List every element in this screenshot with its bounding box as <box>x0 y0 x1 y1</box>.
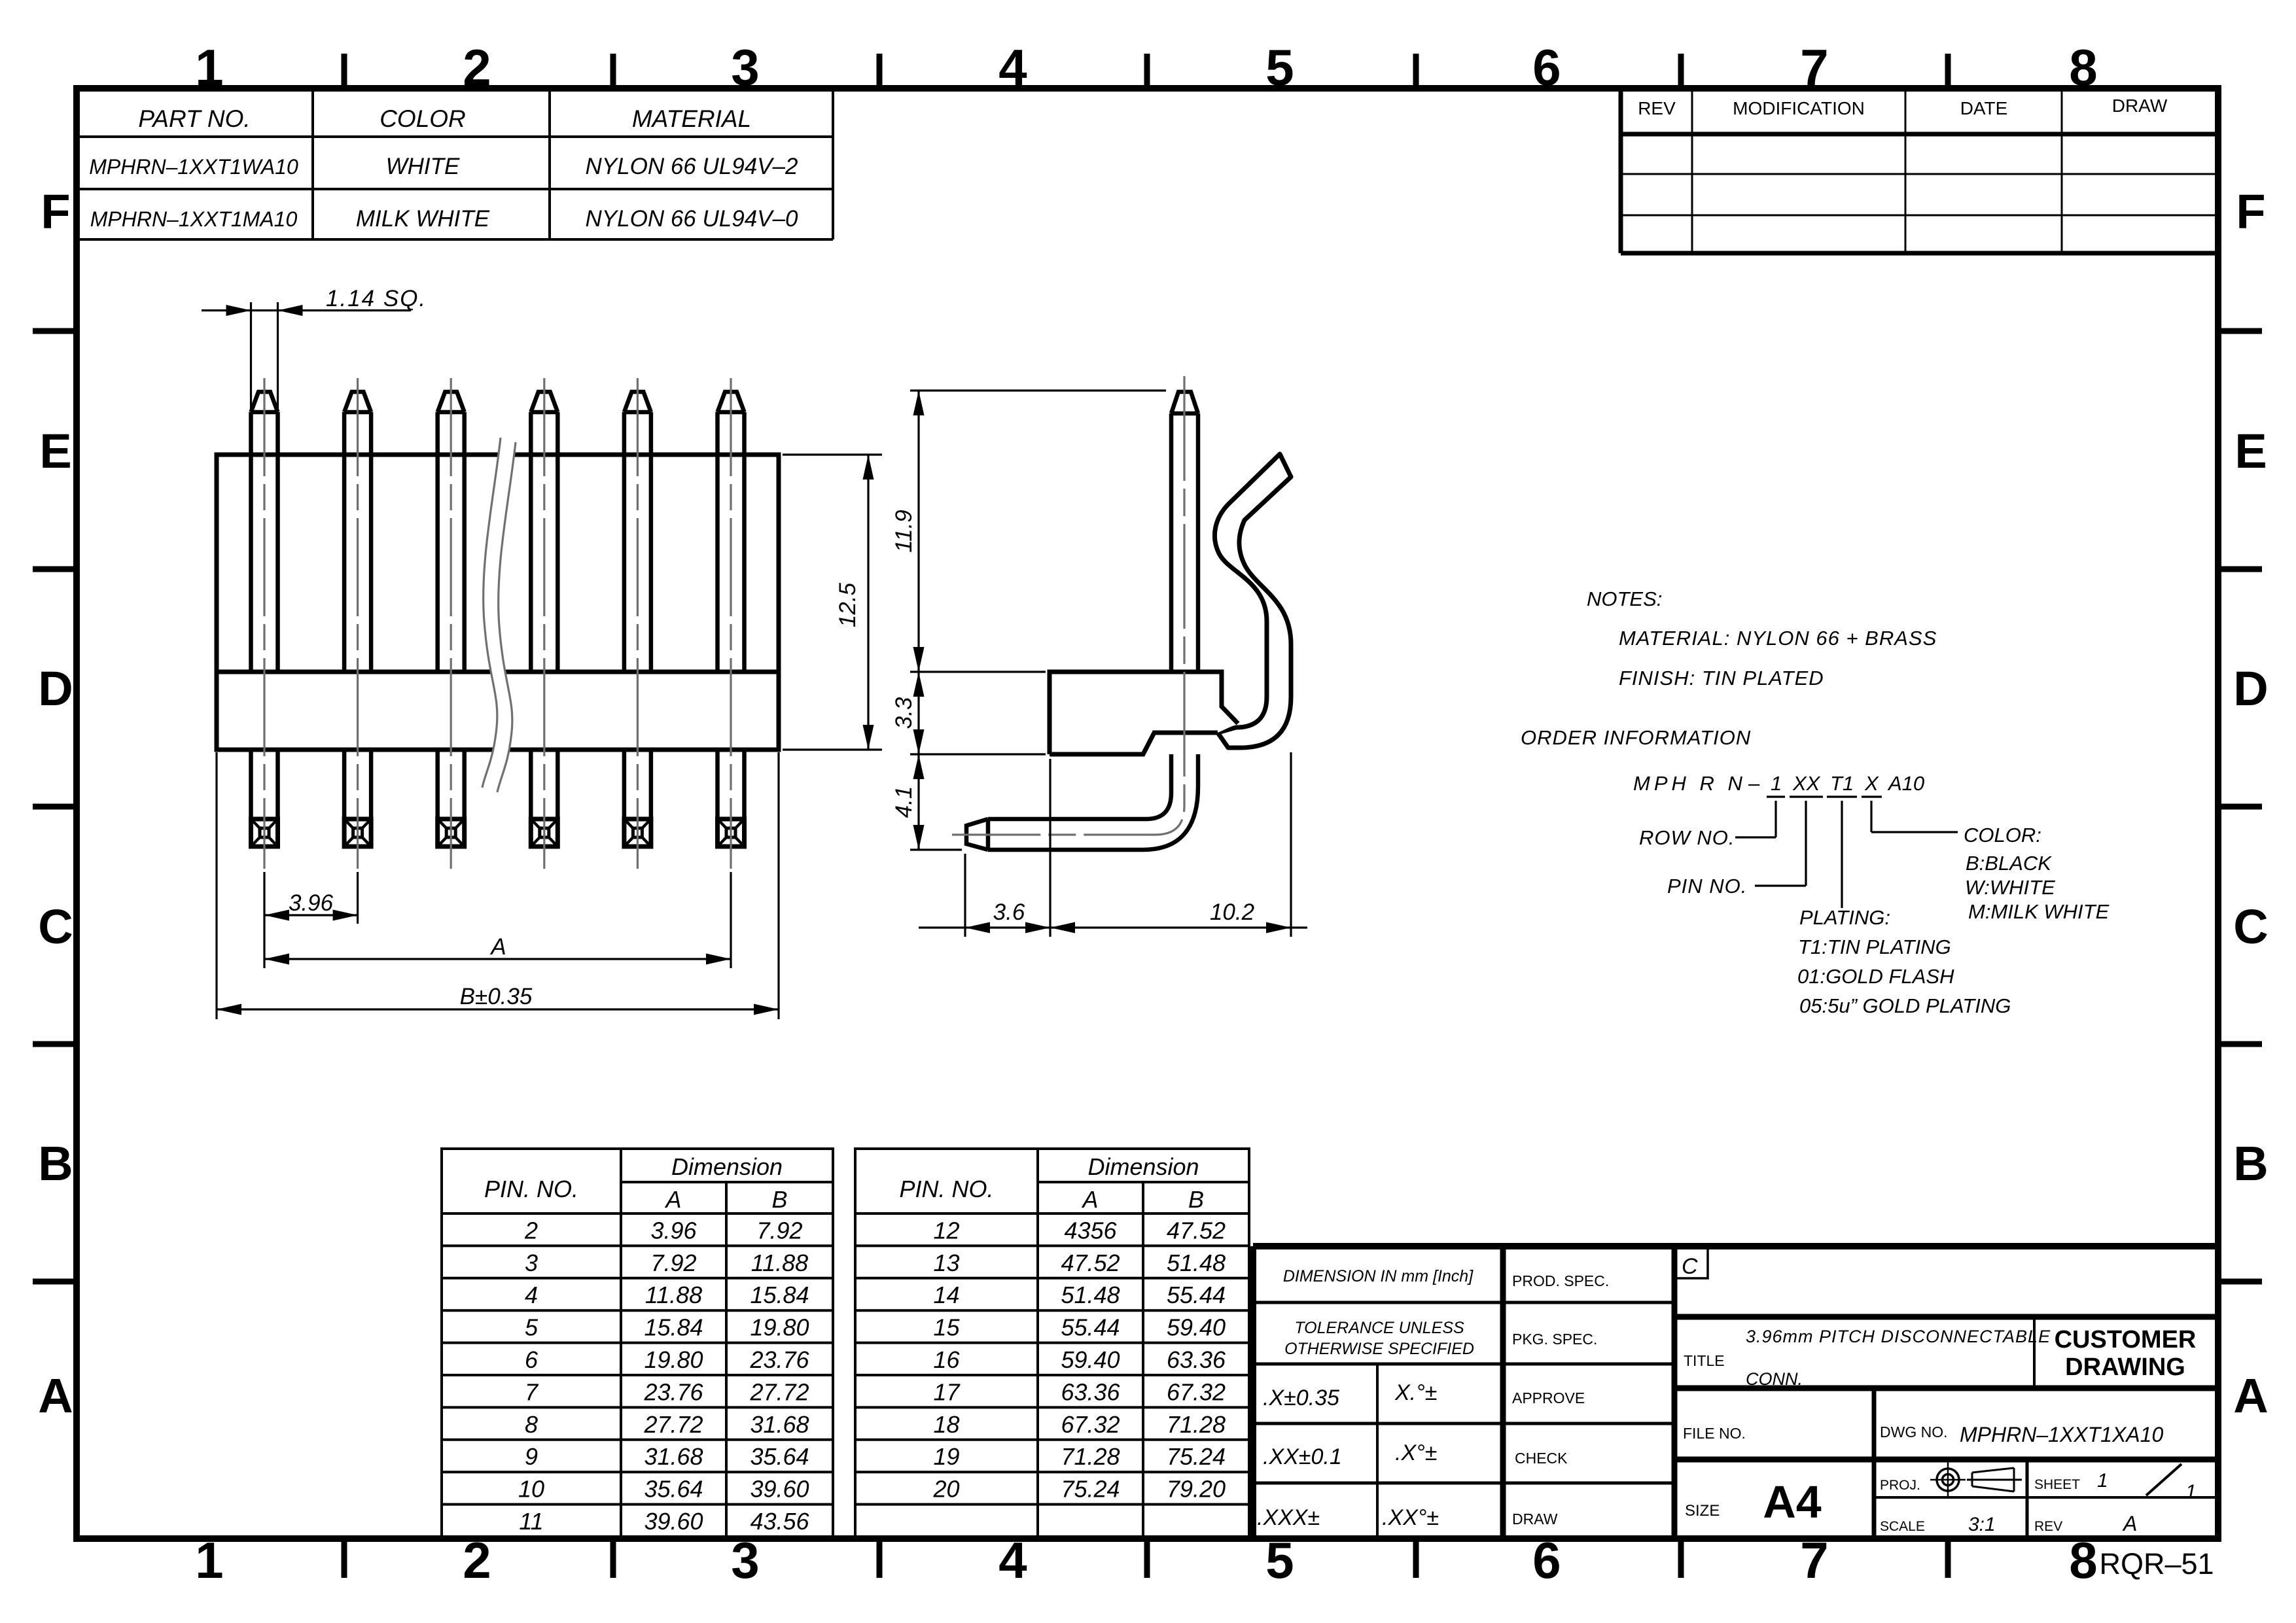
svg-text:.X°±: .X°± <box>1395 1440 1437 1465</box>
svg-text:4.1: 4.1 <box>891 786 917 818</box>
svg-text:XX: XX <box>1792 772 1821 795</box>
svg-text:35.64: 35.64 <box>644 1476 703 1503</box>
dimension A <box>263 924 265 968</box>
svg-text:1: 1 <box>195 1531 223 1589</box>
svg-text:.XX°±: .XX°± <box>1382 1505 1439 1530</box>
svg-text:47.52: 47.52 <box>1167 1217 1226 1244</box>
svg-text:19: 19 <box>933 1443 959 1470</box>
svg-text:COLOR: COLOR <box>380 105 466 132</box>
svg-text:7.92: 7.92 <box>756 1217 802 1244</box>
svg-text:47.52: 47.52 <box>1061 1249 1120 1276</box>
svg-text:5: 5 <box>525 1314 539 1341</box>
svg-text:8: 8 <box>2069 39 2097 96</box>
svg-text:12: 12 <box>933 1217 959 1244</box>
svg-text:05:5u” GOLD PLATING: 05:5u” GOLD PLATING <box>1799 994 2011 1017</box>
svg-text:NYLON 66 UL94V–0: NYLON 66 UL94V–0 <box>586 206 798 232</box>
svg-text:67.32: 67.32 <box>1167 1378 1226 1405</box>
title cell <box>1674 1314 2218 1320</box>
svg-text:E: E <box>2234 424 2267 478</box>
svg-text:MATERIAL: MATERIAL <box>632 105 751 132</box>
dimension 4.1 <box>910 848 962 850</box>
svg-text:71.28: 71.28 <box>1061 1443 1120 1470</box>
file/dwg row <box>1674 1457 2218 1463</box>
svg-text:79.20: 79.20 <box>1167 1476 1226 1503</box>
svg-text:A: A <box>2233 1369 2268 1423</box>
svg-text:SCALE: SCALE <box>1880 1519 1925 1534</box>
svg-text:4: 4 <box>998 39 1027 96</box>
zone ticks bottom <box>342 1539 347 1578</box>
pin 5 centerline <box>637 378 639 869</box>
svg-text:7: 7 <box>1800 39 1828 96</box>
leader pin no. <box>1805 801 1807 886</box>
connector body (front view) <box>217 455 779 750</box>
svg-text:.XXX±: .XXX± <box>1257 1505 1320 1530</box>
svg-text:X.°±: X.°± <box>1394 1380 1437 1405</box>
part table grid <box>311 88 314 239</box>
svg-text:DWG NO.: DWG NO. <box>1880 1423 1948 1440</box>
svg-text:12.5: 12.5 <box>835 582 860 627</box>
pin 3 (front view) <box>438 392 465 846</box>
svg-text:PIN NO.: PIN NO. <box>1667 875 1747 898</box>
svg-text:COLOR:: COLOR: <box>1964 824 2041 846</box>
svg-text:4356: 4356 <box>1064 1217 1117 1244</box>
svg-text:23.76: 23.76 <box>643 1378 703 1405</box>
svg-text:.XX±0.1: .XX±0.1 <box>1263 1444 1342 1469</box>
svg-text:18: 18 <box>933 1411 959 1438</box>
svg-text:8: 8 <box>525 1411 538 1438</box>
svg-text:17: 17 <box>933 1378 961 1405</box>
svg-text:FINISH: TIN PLATED: FINISH: TIN PLATED <box>1619 667 1824 689</box>
leader color <box>1870 801 1872 832</box>
svg-text:7.92: 7.92 <box>650 1249 696 1276</box>
svg-text:CUSTOMER: CUSTOMER <box>2055 1326 2197 1353</box>
svg-text:1: 1 <box>1771 772 1782 795</box>
svg-text:D: D <box>38 661 73 716</box>
pin bottom tip (side view) <box>966 819 988 850</box>
sheet slash <box>2146 1464 2181 1495</box>
revision table grid <box>1619 88 1623 253</box>
svg-text:PLATING:: PLATING: <box>1799 906 1890 929</box>
underlines under order code fields <box>1767 795 1785 797</box>
pin 6 (front view) <box>718 392 745 846</box>
svg-text:3:1: 3:1 <box>1968 1514 1996 1535</box>
break lines (front view) <box>482 438 516 792</box>
svg-text:E: E <box>39 424 71 478</box>
svg-text:1.14 SQ.: 1.14 SQ. <box>326 286 427 311</box>
svg-text:B: B <box>771 1186 787 1213</box>
svg-text:2: 2 <box>463 1531 491 1589</box>
svg-text:DATE: DATE <box>1960 98 2008 118</box>
svg-text:A: A <box>489 934 506 960</box>
svg-text:15: 15 <box>933 1314 960 1341</box>
pin table right grid <box>855 1149 1249 1537</box>
svg-text:59.40: 59.40 <box>1061 1346 1120 1373</box>
svg-text:W:WHITE: W:WHITE <box>1965 876 2055 899</box>
svg-text:A: A <box>664 1186 681 1213</box>
svg-text:75.24: 75.24 <box>1061 1476 1120 1503</box>
pin 2 centerline <box>357 378 359 869</box>
svg-text:2: 2 <box>524 1217 538 1244</box>
svg-text:15.84: 15.84 <box>644 1314 703 1341</box>
title block middle section <box>1503 1301 1674 1304</box>
svg-text:15.84: 15.84 <box>750 1282 809 1308</box>
zone ticks right <box>2218 328 2262 334</box>
svg-text:SIZE: SIZE <box>1685 1502 1720 1520</box>
svg-text:MATERIAL: NYLON 66 + BRASS: MATERIAL: NYLON 66 + BRASS <box>1619 627 1937 650</box>
svg-text:59.40: 59.40 <box>1167 1314 1226 1341</box>
svg-text:27.72: 27.72 <box>643 1411 703 1438</box>
svg-text:T1: T1 <box>1830 772 1854 795</box>
svg-text:MODIFICATION: MODIFICATION <box>1733 98 1865 118</box>
svg-text:PIN. NO.: PIN. NO. <box>899 1176 993 1202</box>
svg-text:WHITE: WHITE <box>386 154 460 179</box>
svg-text:1: 1 <box>195 39 223 96</box>
svg-text:4: 4 <box>525 1282 538 1308</box>
svg-text:3.96mm PITCH DISCONNECTABLE: 3.96mm PITCH DISCONNECTABLE <box>1746 1327 2051 1346</box>
svg-text:F: F <box>41 184 70 239</box>
svg-text:3.6: 3.6 <box>993 899 1025 925</box>
svg-text:OTHERWISE SPECIFIED: OTHERWISE SPECIFIED <box>1284 1340 1474 1358</box>
svg-text:71.28: 71.28 <box>1167 1411 1226 1438</box>
svg-text:39.60: 39.60 <box>644 1508 703 1535</box>
svg-text:55.44: 55.44 <box>1061 1314 1120 1341</box>
pin 5 (front view) <box>624 392 651 846</box>
svg-text:A4: A4 <box>1763 1476 1822 1527</box>
svg-text:43.56: 43.56 <box>750 1508 809 1535</box>
svg-text:3: 3 <box>731 39 759 96</box>
svg-text:C: C <box>2233 899 2268 954</box>
svg-text:MPHRN–1XXT1MA10: MPHRN–1XXT1MA10 <box>90 207 298 231</box>
svg-text:APPROVE: APPROVE <box>1512 1389 1585 1406</box>
svg-text:31.68: 31.68 <box>750 1411 809 1438</box>
svg-text:B: B <box>38 1136 73 1191</box>
svg-text:F: F <box>2236 184 2265 239</box>
svg-text:31.68: 31.68 <box>644 1443 703 1470</box>
svg-text:3.3: 3.3 <box>891 697 917 729</box>
svg-text:CONN.: CONN. <box>1746 1369 1803 1389</box>
leader row no. <box>1775 801 1776 837</box>
svg-text:PROD. SPEC.: PROD. SPEC. <box>1512 1272 1609 1289</box>
pin 1 centerline <box>263 378 265 869</box>
zone ticks left <box>33 328 77 334</box>
clip spring (side view) <box>1214 454 1291 748</box>
svg-text:X: X <box>1864 772 1879 795</box>
dimension 12.5 <box>783 453 882 455</box>
svg-text:01:GOLD FLASH: 01:GOLD FLASH <box>1797 965 1954 988</box>
svg-text:6: 6 <box>1532 39 1561 96</box>
svg-text:TITLE: TITLE <box>1684 1352 1725 1369</box>
svg-text:NYLON 66 UL94V–2: NYLON 66 UL94V–2 <box>586 154 798 179</box>
svg-text:6: 6 <box>525 1346 539 1373</box>
svg-text:20: 20 <box>932 1476 959 1503</box>
svg-text:5: 5 <box>1265 39 1294 96</box>
svg-text:9: 9 <box>525 1443 538 1470</box>
pin table left grid <box>442 1149 833 1537</box>
svg-text:B:BLACK: B:BLACK <box>1966 852 2052 875</box>
svg-text:5: 5 <box>1265 1531 1294 1589</box>
title block left section <box>1253 1301 1503 1304</box>
svg-text:16: 16 <box>933 1346 960 1373</box>
svg-text:8: 8 <box>2069 1531 2097 1589</box>
svg-text:PIN. NO.: PIN. NO. <box>484 1176 578 1202</box>
connector body (side view) <box>1050 672 1238 754</box>
proj/scale cells <box>2026 1459 2029 1539</box>
svg-text:DRAW: DRAW <box>1512 1510 1558 1527</box>
pin lower bend (side view) <box>988 754 1198 850</box>
dimension B±0.35 <box>215 752 217 1019</box>
svg-text:75.24: 75.24 <box>1167 1443 1226 1470</box>
svg-text:–: – <box>1748 772 1760 795</box>
svg-text:3.96: 3.96 <box>289 890 334 916</box>
svg-text:.X±0.35: .X±0.35 <box>1263 1386 1339 1410</box>
svg-text:MPH R N: MPH R N <box>1633 772 1746 795</box>
svg-text:DRAWING: DRAWING <box>2065 1353 2185 1381</box>
svg-text:14: 14 <box>933 1282 959 1308</box>
svg-text:A: A <box>38 1369 73 1423</box>
pin 1 (front view) <box>251 392 278 846</box>
svg-text:6: 6 <box>1532 1531 1561 1589</box>
svg-text:SHEET: SHEET <box>2034 1477 2080 1492</box>
svg-text:11.88: 11.88 <box>645 1282 702 1308</box>
svg-text:PART NO.: PART NO. <box>138 105 250 132</box>
svg-text:B±0.35: B±0.35 <box>460 984 533 1009</box>
dimension 3.3 <box>910 753 1046 755</box>
svg-text:FILE NO.: FILE NO. <box>1683 1425 1746 1442</box>
svg-text:51.48: 51.48 <box>1061 1282 1120 1308</box>
pin centerline (side view) <box>952 376 1184 835</box>
dimension 3.96 <box>263 872 265 924</box>
svg-text:CHECK: CHECK <box>1515 1450 1568 1467</box>
zone ticks top <box>342 54 347 88</box>
pin 4 centerline <box>543 378 545 869</box>
svg-text:T1:TIN PLATING: T1:TIN PLATING <box>1798 935 1951 958</box>
svg-text:67.32: 67.32 <box>1061 1411 1120 1438</box>
svg-text:3.96: 3.96 <box>650 1217 697 1244</box>
dimension 1.14 SQ. <box>250 302 252 411</box>
pin vertical shaft (side view) <box>1171 392 1198 413</box>
svg-text:63.36: 63.36 <box>1167 1346 1226 1373</box>
svg-text:ORDER INFORMATION: ORDER INFORMATION <box>1521 726 1751 749</box>
svg-text:MPHRN–1XXT1XA10: MPHRN–1XXT1XA10 <box>1960 1423 2163 1446</box>
svg-text:7: 7 <box>525 1378 539 1405</box>
svg-text:63.36: 63.36 <box>1061 1378 1120 1405</box>
svg-text:TOLERANCE UNLESS: TOLERANCE UNLESS <box>1294 1319 1464 1337</box>
svg-text:MILK WHITE: MILK WHITE <box>356 206 490 232</box>
svg-text:RQR–51: RQR–51 <box>2099 1547 2214 1580</box>
svg-text:13: 13 <box>933 1249 959 1276</box>
svg-text:1: 1 <box>2097 1470 2108 1492</box>
pin 2 (front view) <box>344 392 371 846</box>
svg-text:39.60: 39.60 <box>750 1476 809 1503</box>
svg-text:2: 2 <box>463 39 491 96</box>
svg-text:M:MILK WHITE: M:MILK WHITE <box>1968 900 2110 923</box>
svg-text:ROW NO.: ROW NO. <box>1639 826 1735 849</box>
svg-text:3: 3 <box>525 1249 538 1276</box>
svg-text:10: 10 <box>518 1476 544 1503</box>
projection symbol <box>1937 1469 1959 1491</box>
svg-text:19.80: 19.80 <box>644 1346 703 1373</box>
svg-text:23.76: 23.76 <box>749 1346 809 1373</box>
svg-text:11: 11 <box>519 1508 543 1535</box>
svg-text:PKG. SPEC.: PKG. SPEC. <box>1512 1331 1597 1348</box>
svg-text:55.44: 55.44 <box>1167 1282 1226 1308</box>
pin 6 centerline <box>730 378 732 869</box>
svg-text:REV: REV <box>2034 1519 2062 1534</box>
dimension 3.6 <box>964 854 966 937</box>
svg-text:Dimension: Dimension <box>1087 1153 1199 1180</box>
svg-text:A: A <box>1081 1186 1098 1213</box>
svg-text:DRAW: DRAW <box>2112 96 2168 116</box>
svg-text:MPHRN–1XXT1WA10: MPHRN–1XXT1WA10 <box>89 155 298 179</box>
pin 3 centerline <box>450 378 452 869</box>
svg-text:Dimension: Dimension <box>671 1153 783 1180</box>
svg-text:C: C <box>38 899 73 954</box>
pin 4 (front view) <box>531 392 557 846</box>
svg-text:51.48: 51.48 <box>1167 1249 1226 1276</box>
svg-text:11.88: 11.88 <box>751 1249 808 1276</box>
body band line (front view) <box>217 670 779 674</box>
svg-text:3: 3 <box>731 1531 759 1589</box>
svg-text:B: B <box>1188 1186 1204 1213</box>
svg-text:10.2: 10.2 <box>1210 899 1254 925</box>
svg-text:B: B <box>2233 1136 2268 1191</box>
C zone box <box>1674 1246 1708 1278</box>
svg-text:27.72: 27.72 <box>749 1378 809 1405</box>
svg-text:11.9: 11.9 <box>891 510 917 553</box>
svg-text:4: 4 <box>998 1531 1027 1589</box>
dimension 10.2 <box>1290 752 1292 937</box>
svg-text:REV: REV <box>1638 98 1676 118</box>
svg-text:NOTES:: NOTES: <box>1587 587 1662 610</box>
svg-text:35.64: 35.64 <box>750 1443 809 1470</box>
title block outer <box>1250 1246 1256 1539</box>
svg-text:A10: A10 <box>1887 772 1924 795</box>
leader plating <box>1841 801 1843 908</box>
svg-text:D: D <box>2233 661 2268 716</box>
svg-text:1: 1 <box>2185 1481 2197 1503</box>
svg-text:PROJ.: PROJ. <box>1880 1478 1920 1493</box>
svg-text:7: 7 <box>1800 1531 1828 1589</box>
svg-text:C: C <box>1682 1254 1698 1279</box>
dimension 11.9 <box>910 389 1166 391</box>
svg-text:A: A <box>2122 1512 2137 1535</box>
svg-text:19.80: 19.80 <box>750 1314 809 1341</box>
svg-text:DIMENSION IN mm [Inch]: DIMENSION IN mm [Inch] <box>1283 1267 1474 1285</box>
